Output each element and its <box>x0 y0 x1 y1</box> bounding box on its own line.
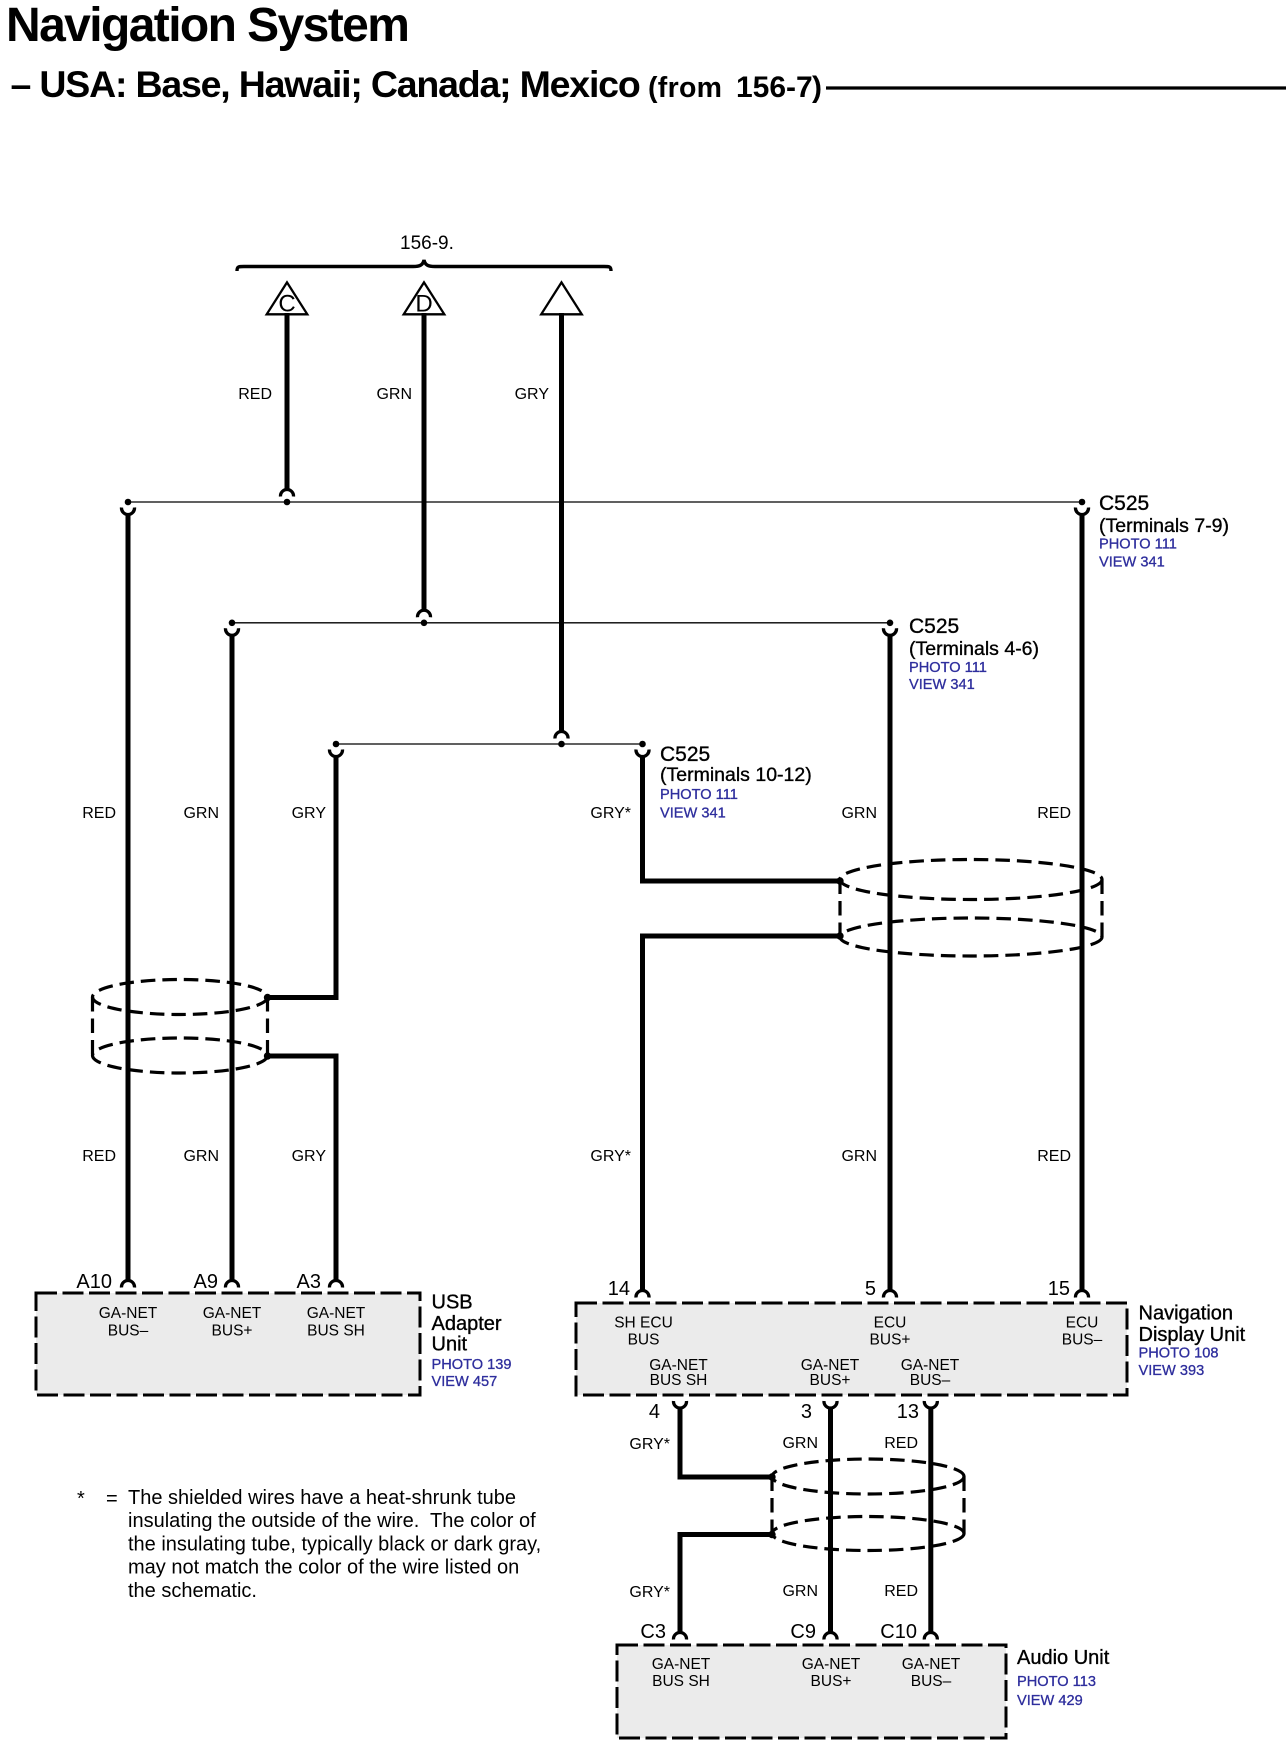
svg-text:RED: RED <box>884 1583 918 1600</box>
svg-text:): ) <box>812 71 822 104</box>
svg-text:Display Unit: Display Unit <box>1139 1324 1246 1346</box>
svg-text:Unit: Unit <box>432 1334 468 1356</box>
svg-text:GRY*: GRY* <box>590 1148 631 1165</box>
svg-text:GA-NET: GA-NET <box>307 1305 366 1322</box>
svg-text:3: 3 <box>801 1401 812 1423</box>
svg-text:GRY: GRY <box>292 1148 327 1165</box>
svg-text:RED: RED <box>1037 805 1071 822</box>
svg-text:C3: C3 <box>640 1621 666 1643</box>
svg-text:(Terminals 10-12): (Terminals 10-12) <box>660 764 812 786</box>
svg-text:BUS–: BUS– <box>910 1372 951 1389</box>
svg-text:PHOTO 113: PHOTO 113 <box>1017 1674 1096 1690</box>
svg-text:156-7: 156-7 <box>736 71 813 104</box>
svg-text:GRN: GRN <box>183 1148 219 1165</box>
svg-text:C9: C9 <box>790 1621 816 1643</box>
svg-text:the insulating tube, typically: the insulating tube, typically black or … <box>128 1533 541 1555</box>
svg-text:13: 13 <box>897 1401 919 1423</box>
svg-text:BUS SH: BUS SH <box>307 1323 365 1340</box>
svg-text:156-9.: 156-9. <box>400 233 454 254</box>
svg-text:GRY*: GRY* <box>590 805 631 822</box>
svg-text:BUS+: BUS+ <box>811 1673 852 1690</box>
svg-text:RED: RED <box>82 805 116 822</box>
svg-text:Audio Unit: Audio Unit <box>1017 1647 1110 1669</box>
svg-text:insulating the outside of the: insulating the outside of the wire. The … <box>128 1510 536 1532</box>
svg-text:BUS+: BUS+ <box>870 1332 911 1349</box>
svg-text:14: 14 <box>608 1278 630 1300</box>
svg-text:Adapter: Adapter <box>432 1313 502 1335</box>
svg-text:the schematic.: the schematic. <box>128 1580 257 1602</box>
svg-text:GRY*: GRY* <box>629 1436 670 1453</box>
svg-text:RED: RED <box>884 1435 918 1452</box>
svg-text:USB: USB <box>432 1291 473 1313</box>
svg-text:C10: C10 <box>880 1621 917 1643</box>
svg-text:C525: C525 <box>909 615 959 638</box>
svg-text:BUS–: BUS– <box>1062 1332 1103 1349</box>
svg-text:The shielded wires have a heat: The shielded wires have a heat-shrunk tu… <box>128 1487 516 1509</box>
svg-text:ECU: ECU <box>874 1315 907 1332</box>
svg-text:BUS–: BUS– <box>108 1323 149 1340</box>
svg-text:VIEW 457: VIEW 457 <box>432 1374 498 1390</box>
svg-text:VIEW 341: VIEW 341 <box>909 677 975 693</box>
svg-text:GRN: GRN <box>841 805 877 822</box>
svg-text:C525: C525 <box>1099 492 1149 515</box>
svg-text:BUS: BUS <box>628 1332 660 1349</box>
svg-text:(from: (from <box>648 72 722 104</box>
svg-text:A10: A10 <box>76 1271 112 1293</box>
svg-text:A9: A9 <box>194 1271 218 1293</box>
svg-text:PHOTO 111: PHOTO 111 <box>1099 537 1177 553</box>
svg-text:C525: C525 <box>660 743 710 766</box>
svg-text:BUS+: BUS+ <box>810 1372 851 1389</box>
svg-text:GRN: GRN <box>841 1148 877 1165</box>
svg-text:PHOTO 139: PHOTO 139 <box>432 1357 512 1373</box>
svg-text:VIEW 429: VIEW 429 <box>1017 1693 1083 1709</box>
svg-text:15: 15 <box>1048 1278 1070 1300</box>
svg-text:A3: A3 <box>297 1271 321 1293</box>
svg-text:PHOTO 111: PHOTO 111 <box>660 787 738 803</box>
svg-text:RED: RED <box>82 1148 116 1165</box>
svg-text:5: 5 <box>865 1278 876 1300</box>
svg-text:GRN: GRN <box>782 1435 818 1452</box>
svg-text:GRN: GRN <box>782 1583 818 1600</box>
svg-text:(Terminals 7-9): (Terminals 7-9) <box>1099 515 1229 537</box>
svg-text:BUS SH: BUS SH <box>650 1372 708 1389</box>
svg-text:=: = <box>106 1488 118 1510</box>
svg-text:GA-NET: GA-NET <box>99 1305 158 1322</box>
svg-text:Navigation System: Navigation System <box>6 0 408 52</box>
svg-text:PHOTO 111: PHOTO 111 <box>909 660 987 676</box>
svg-text:BUS–: BUS– <box>911 1673 952 1690</box>
svg-text:RED: RED <box>238 386 272 403</box>
svg-text:PHOTO 108: PHOTO 108 <box>1139 1346 1219 1362</box>
svg-text:GA-NET: GA-NET <box>902 1656 961 1673</box>
svg-text:SH ECU: SH ECU <box>614 1315 673 1332</box>
svg-text:Navigation: Navigation <box>1139 1303 1234 1325</box>
svg-text:VIEW 341: VIEW 341 <box>660 806 726 822</box>
svg-text:GRY: GRY <box>515 386 550 403</box>
svg-text:GA-NET: GA-NET <box>802 1656 861 1673</box>
svg-text:RED: RED <box>1037 1148 1071 1165</box>
svg-text:GRN: GRN <box>183 805 219 822</box>
svg-text:GA-NET: GA-NET <box>203 1305 262 1322</box>
svg-text:BUS+: BUS+ <box>212 1323 253 1340</box>
svg-text:BUS SH: BUS SH <box>652 1673 710 1690</box>
svg-text:4: 4 <box>649 1401 660 1423</box>
svg-text:VIEW 393: VIEW 393 <box>1139 1363 1205 1379</box>
svg-text:ECU: ECU <box>1066 1315 1099 1332</box>
svg-text:may not match the color of the: may not match the color of the wire list… <box>128 1557 519 1579</box>
svg-text:GA-NET: GA-NET <box>652 1656 711 1673</box>
svg-text:GRY: GRY <box>292 805 327 822</box>
svg-text:GRY*: GRY* <box>629 1584 670 1601</box>
svg-text:GRN: GRN <box>376 386 412 403</box>
svg-text:(Terminals 4-6): (Terminals 4-6) <box>909 638 1039 660</box>
svg-text:– USA: Base, Hawaii; Canada; M: – USA: Base, Hawaii; Canada; Mexico <box>11 63 640 105</box>
svg-text:VIEW 341: VIEW 341 <box>1099 555 1165 571</box>
svg-text:*: * <box>77 1488 85 1510</box>
